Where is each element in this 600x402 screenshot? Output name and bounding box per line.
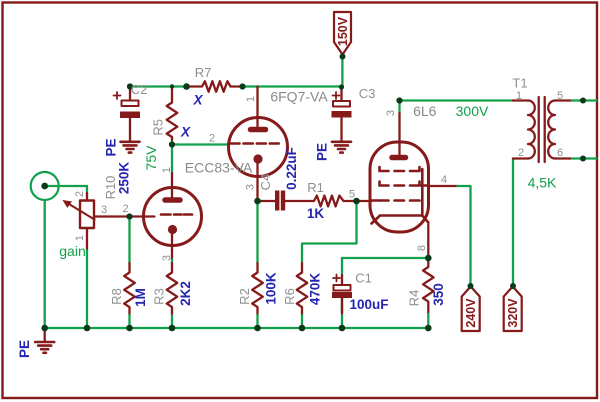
svg-text:8: 8 bbox=[416, 245, 428, 251]
svg-text:5: 5 bbox=[557, 90, 563, 102]
svg-text:ECC83-VA: ECC83-VA bbox=[185, 160, 253, 176]
svg-text:C1: C1 bbox=[355, 271, 372, 286]
svg-text:6FQ7-VA: 6FQ7-VA bbox=[270, 89, 328, 105]
svg-text:1: 1 bbox=[516, 90, 522, 102]
svg-text:2: 2 bbox=[518, 147, 524, 159]
svg-text:1: 1 bbox=[245, 96, 257, 102]
svg-text:R5: R5 bbox=[151, 119, 166, 136]
svg-text:R1: R1 bbox=[307, 180, 324, 195]
svg-text:100uF: 100uF bbox=[349, 297, 388, 312]
svg-text:PE: PE bbox=[17, 340, 32, 358]
svg-text:gain: gain bbox=[59, 243, 85, 259]
svg-text:6L6: 6L6 bbox=[413, 103, 437, 119]
svg-text:1: 1 bbox=[74, 235, 86, 241]
svg-text:1M: 1M bbox=[133, 288, 148, 307]
svg-text:3: 3 bbox=[245, 184, 257, 190]
svg-text:3: 3 bbox=[385, 110, 397, 116]
svg-text:240V: 240V bbox=[464, 298, 478, 328]
svg-text:250K: 250K bbox=[117, 162, 132, 195]
svg-text:R6: R6 bbox=[282, 288, 297, 305]
svg-text:3: 3 bbox=[161, 255, 173, 261]
svg-text:320V: 320V bbox=[506, 298, 520, 328]
svg-text:R7: R7 bbox=[195, 65, 212, 80]
svg-text:R2: R2 bbox=[237, 288, 252, 305]
svg-text:470K: 470K bbox=[308, 273, 323, 306]
svg-text:R3: R3 bbox=[152, 288, 167, 305]
svg-text:6: 6 bbox=[557, 147, 563, 159]
svg-text:3: 3 bbox=[101, 204, 107, 216]
svg-text:C2: C2 bbox=[131, 82, 148, 97]
svg-text:4: 4 bbox=[441, 174, 447, 186]
svg-text:75V: 75V bbox=[143, 145, 159, 171]
svg-text:350: 350 bbox=[431, 283, 446, 306]
svg-text:4,5K: 4,5K bbox=[528, 175, 557, 191]
svg-text:150V: 150V bbox=[336, 16, 350, 46]
svg-text:100K: 100K bbox=[264, 272, 279, 305]
svg-text:T1: T1 bbox=[512, 76, 527, 91]
svg-text:2: 2 bbox=[74, 191, 86, 197]
svg-text:X: X bbox=[192, 93, 203, 108]
svg-text:R4: R4 bbox=[407, 290, 422, 307]
svg-text:2: 2 bbox=[209, 133, 215, 145]
svg-text:2K2: 2K2 bbox=[178, 281, 193, 306]
svg-text:C4: C4 bbox=[258, 174, 273, 191]
svg-text:PE: PE bbox=[315, 143, 330, 161]
svg-text:1: 1 bbox=[161, 167, 173, 173]
svg-text:X: X bbox=[180, 125, 191, 140]
svg-text:2: 2 bbox=[122, 203, 128, 215]
svg-text:C3: C3 bbox=[359, 86, 376, 101]
svg-text:1K: 1K bbox=[307, 206, 325, 221]
svg-text:5: 5 bbox=[349, 189, 355, 201]
svg-text:300V: 300V bbox=[456, 103, 489, 119]
svg-text:0.22uF: 0.22uF bbox=[284, 147, 299, 190]
svg-text:PE: PE bbox=[104, 138, 119, 156]
svg-text:R8: R8 bbox=[109, 288, 124, 305]
